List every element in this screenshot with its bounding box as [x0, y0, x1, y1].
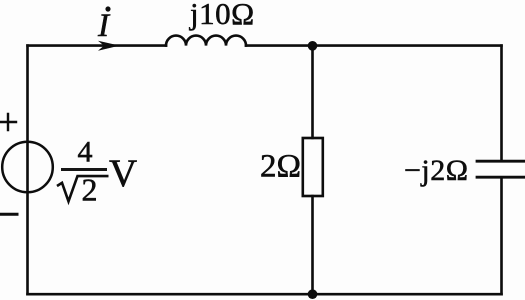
radical sign of sqrt2: [57, 176, 109, 201]
minus sign of source: [0, 213, 17, 216]
node B bottom junction: [308, 289, 318, 299]
label current I dot: [106, 7, 111, 12]
svg-text:j10Ω: j10Ω: [189, 0, 255, 31]
svg-text:−j2Ω: −j2Ω: [404, 154, 469, 187]
wire top-right segment: [246, 44, 502, 47]
wire top-left segment: [28, 44, 167, 47]
wire middle lower: [311, 196, 314, 294]
current arrow head: [98, 41, 120, 51]
svg-text:I: I: [97, 8, 111, 44]
svg-text:2Ω: 2Ω: [260, 149, 301, 185]
inductor L j10: [166, 36, 246, 46]
capacitor C top plate: [477, 160, 525, 163]
fraction bar: [61, 168, 107, 171]
wire middle upper: [311, 46, 314, 138]
wire right upper: [500, 46, 503, 161]
wire left side: [26, 46, 29, 295]
plus sign of source: [0, 114, 16, 130]
wire bottom: [28, 293, 502, 296]
voltage source V1 circle: [2, 142, 53, 193]
resistor R 2ohm box: [303, 138, 323, 196]
wire right lower: [500, 178, 503, 294]
svg-text:V: V: [109, 152, 137, 195]
svg-text:4: 4: [78, 136, 93, 169]
capacitor C bottom plate: [477, 176, 525, 179]
node A top junction: [308, 41, 318, 51]
